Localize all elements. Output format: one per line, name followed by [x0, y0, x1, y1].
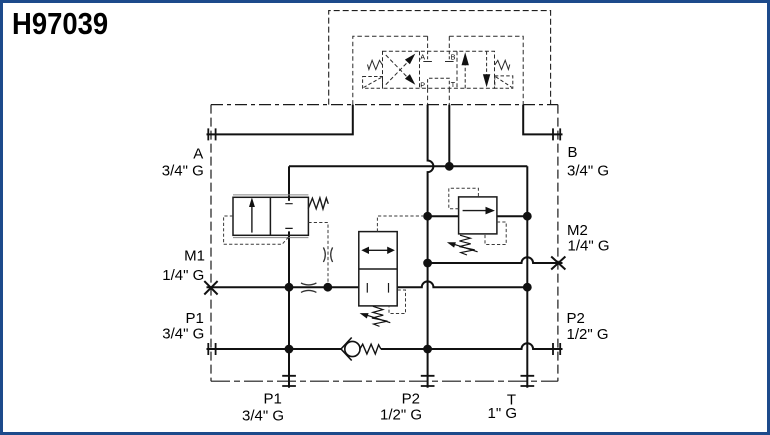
svg-text:M1: M1	[184, 248, 205, 265]
svg-text:A: A	[420, 53, 425, 62]
svg-text:B: B	[451, 53, 456, 62]
svg-text:3/4" G: 3/4" G	[567, 162, 609, 179]
svg-text:P2: P2	[567, 310, 585, 327]
svg-text:3/4" G: 3/4" G	[242, 408, 284, 425]
svg-text:3/4" G: 3/4" G	[162, 326, 204, 343]
svg-text:P1: P1	[263, 391, 281, 408]
svg-text:P: P	[420, 81, 425, 90]
svg-text:1/4" G: 1/4" G	[162, 267, 204, 284]
svg-text:P2: P2	[402, 390, 420, 407]
svg-text:P1: P1	[185, 310, 203, 327]
svg-text:B: B	[568, 144, 578, 161]
svg-text:1" G: 1" G	[487, 405, 517, 422]
svg-text:A: A	[193, 146, 203, 163]
svg-text:3/4" G: 3/4" G	[162, 162, 204, 179]
svg-text:1/2" G: 1/2" G	[567, 326, 609, 343]
svg-text:T: T	[451, 80, 456, 89]
svg-text:1/4" G: 1/4" G	[568, 238, 610, 255]
svg-text:1/2" G: 1/2" G	[380, 406, 422, 423]
